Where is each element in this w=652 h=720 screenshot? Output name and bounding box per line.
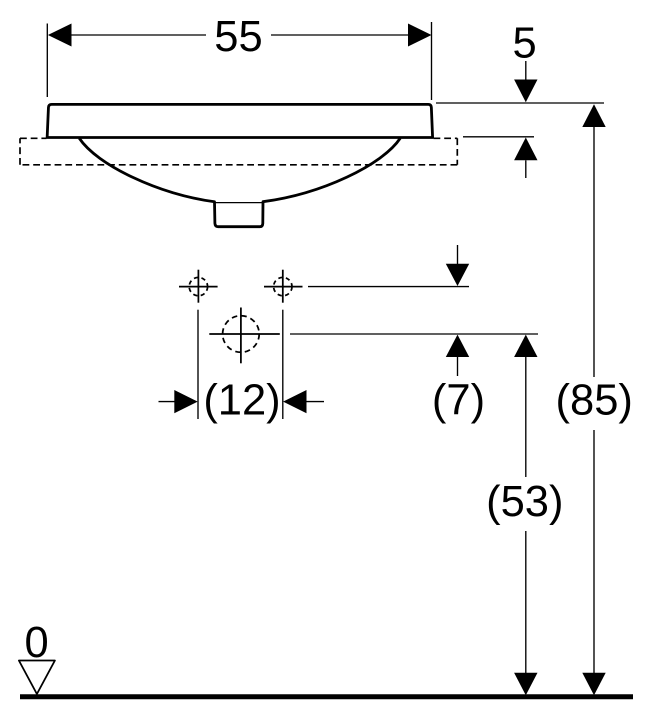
dimension 53 arrow down <box>514 673 537 696</box>
dimension 53 line lower <box>525 531 527 673</box>
tap row reference line <box>308 286 469 288</box>
faucet row reference line <box>290 333 538 335</box>
dimension 5 leader line <box>525 61 527 80</box>
floor line <box>20 694 633 699</box>
tap hole left cross <box>179 270 218 303</box>
dimension 55 extension line left <box>46 24 48 98</box>
svg-text:(12): (12) <box>203 377 280 425</box>
rim bottom reference line <box>463 136 534 138</box>
basin rim <box>47 104 432 137</box>
dimension 85 line upper <box>593 127 595 377</box>
datum triangle <box>19 661 55 695</box>
dimension 12 extension line left <box>197 310 199 419</box>
rim top reference line <box>436 102 604 104</box>
dimension 55 line <box>70 34 409 36</box>
dimension 12 extension line right <box>282 310 284 419</box>
dimension 85 arrow up <box>582 104 605 127</box>
svg-text:(85): (85) <box>556 377 633 425</box>
dimension 12 arrow right <box>283 390 306 413</box>
dimension 55 arrow right <box>408 24 432 47</box>
svg-text:5: 5 <box>512 20 536 68</box>
dimension 7 upper leader <box>457 245 459 264</box>
dimension 53 arrow up <box>514 335 537 357</box>
dimension 55 extension line right <box>431 22 433 100</box>
dimension 53 line upper <box>525 357 527 477</box>
svg-text:(7): (7) <box>432 377 485 425</box>
drain top thin line <box>215 202 264 204</box>
dimension 7 arrow down <box>446 264 469 286</box>
tap hole right cross <box>264 270 303 303</box>
dimension 85 line lower <box>593 430 595 673</box>
svg-text:55: 55 <box>214 13 262 61</box>
dimension 85 arrow down <box>582 673 605 696</box>
dimension 12 arrow left <box>174 390 197 413</box>
dimension 12 tail left <box>159 401 176 403</box>
dimension 5 arrow up <box>514 138 537 161</box>
dimension 7 arrow up <box>446 335 469 357</box>
counter dashed outline <box>20 138 457 165</box>
dimension 7 lower stub <box>457 357 459 376</box>
dimension 5 arrow down <box>514 80 537 103</box>
dimension 55 arrow left <box>48 24 72 47</box>
dimension 12 tail right <box>306 401 324 403</box>
svg-text:(53): (53) <box>486 478 563 526</box>
basin bowl with drain <box>79 138 400 227</box>
faucet hole cross <box>209 308 279 364</box>
dimension 5 lower stub <box>525 160 527 178</box>
